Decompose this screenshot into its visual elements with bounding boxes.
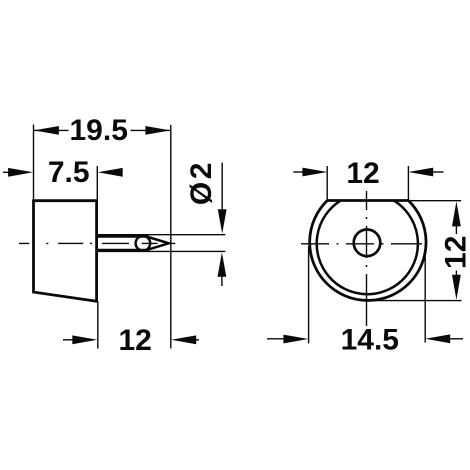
svg-text:19.5: 19.5 [70,114,128,147]
svg-text:12: 12 [119,324,152,357]
svg-text:Ø2: Ø2 [185,160,218,205]
svg-text:12: 12 [346,157,379,190]
svg-text:14.5: 14.5 [341,323,399,356]
svg-text:12: 12 [439,236,470,269]
svg-text:7.5: 7.5 [48,156,90,189]
